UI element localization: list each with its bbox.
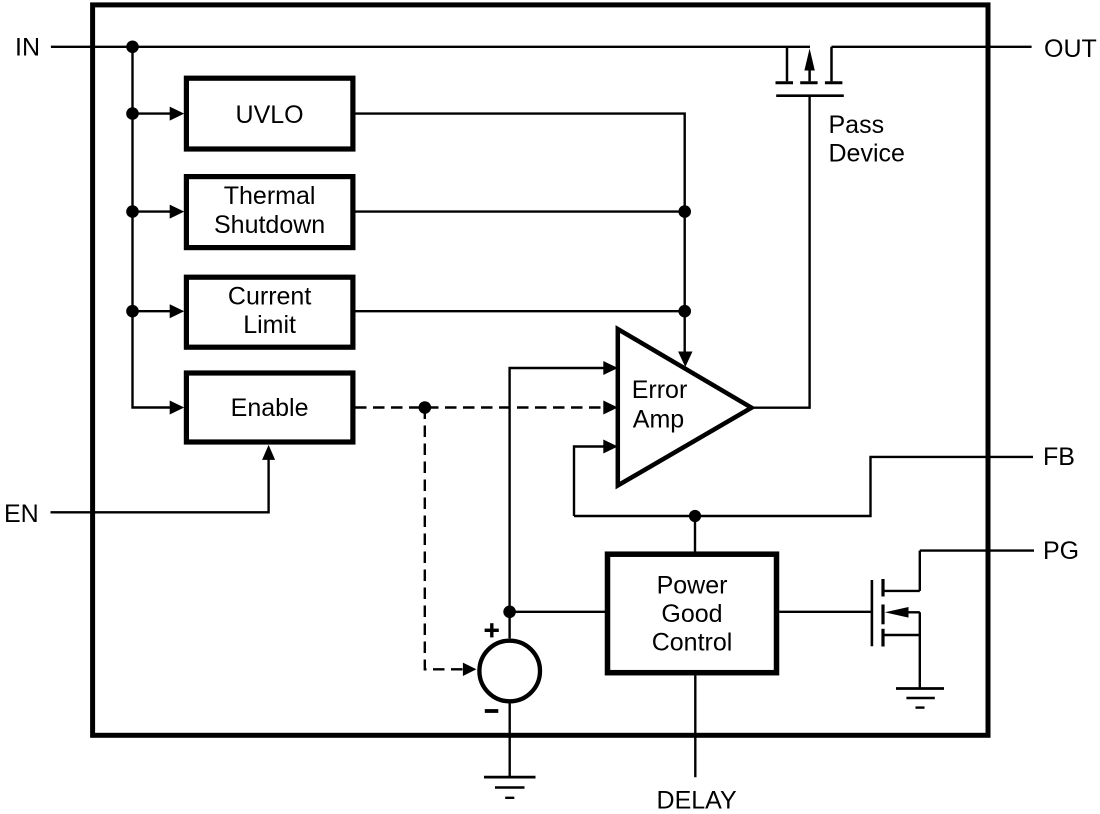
svg-text:EN: EN [4, 500, 39, 528]
wire UVLO feeder [133, 112, 171, 114]
svg-text:Device: Device [829, 139, 905, 167]
chip outline [93, 5, 988, 735]
node reference junction [503, 606, 516, 619]
op-amp error amp U1 [618, 329, 752, 486]
node FB junction [689, 510, 701, 522]
wire power good control to PG gate [779, 611, 872, 613]
svg-text:PG: PG [1043, 537, 1079, 565]
svg-text:Control: Control [652, 629, 733, 657]
wire reference to error amp + input [510, 368, 604, 638]
block Power Good Control [608, 554, 777, 673]
arrow into UVLO [170, 107, 185, 121]
wire current-limit feeder [133, 310, 171, 312]
svg-text:FB: FB [1043, 443, 1075, 471]
wire enable dashed to reference [425, 408, 463, 670]
svg-text:Thermal: Thermal [224, 182, 316, 210]
svg-text:UVLO: UVLO [236, 101, 304, 129]
wire thermal output [355, 210, 685, 212]
arrow into error amp top [678, 352, 692, 368]
svg-text:OUT: OUT [1044, 35, 1097, 63]
node bus thermal tap [126, 205, 139, 218]
wire thermal feeder [133, 210, 171, 212]
node bus UVLO tap [126, 107, 139, 120]
arrow into error amp + input [603, 361, 618, 375]
arrow into Enable bottom [262, 445, 275, 460]
wire UVLO output [355, 114, 685, 352]
voltage reference [479, 623, 540, 711]
arrow into Current Limit [170, 304, 185, 318]
transistor pass device Q1 [776, 47, 844, 96]
block Current Limit [186, 277, 353, 347]
arrow into error amp - input [603, 440, 618, 454]
transistor PG pulldown Q2 [872, 551, 920, 689]
svg-text:Amp: Amp [633, 406, 684, 434]
svg-text:Shutdown: Shutdown [214, 211, 325, 239]
block Enable [186, 373, 353, 442]
svg-text:Enable: Enable [231, 394, 309, 422]
wire current-limit output [355, 310, 685, 312]
arrow into reference [463, 663, 477, 676]
svg-text:IN: IN [15, 33, 40, 61]
ground reference [484, 777, 536, 798]
wire reference to ground [509, 701, 511, 777]
wire error amp output to pass gate [752, 96, 810, 408]
svg-text:Error: Error [632, 376, 688, 404]
arrow into Thermal Shutdown [170, 205, 185, 219]
wire input bus [133, 47, 171, 408]
block UVLO [186, 78, 353, 149]
wire FB to power good control [694, 516, 696, 552]
svg-text:DELAY: DELAY [657, 787, 737, 814]
wire DELAY [694, 676, 696, 778]
wire OUT rail [832, 46, 1032, 48]
node bus current-limit tap [126, 305, 139, 318]
svg-text:Power: Power [657, 571, 728, 599]
block Thermal Shutdown [186, 177, 353, 248]
node IN bus junction [126, 41, 139, 54]
arrow into error amp enable input [603, 401, 618, 415]
svg-text:Current: Current [228, 282, 311, 310]
wire EN [51, 460, 269, 513]
wire IN rail [51, 46, 810, 48]
node enable dashed junction [419, 401, 432, 414]
svg-text:Pass: Pass [829, 111, 885, 139]
ground PG transistor [896, 689, 944, 708]
wire FB feedback [574, 457, 1033, 516]
wire error amp - input [574, 447, 604, 517]
svg-text:Good: Good [661, 600, 722, 628]
svg-text:Limit: Limit [243, 311, 296, 339]
node current-limit output junction [678, 305, 691, 318]
wire reference to power good control [510, 611, 605, 613]
arrow into Enable [170, 401, 185, 415]
wire PG rail [920, 549, 1034, 551]
wire enable dashed to error amp [355, 406, 604, 408]
node thermal output junction [678, 205, 691, 218]
